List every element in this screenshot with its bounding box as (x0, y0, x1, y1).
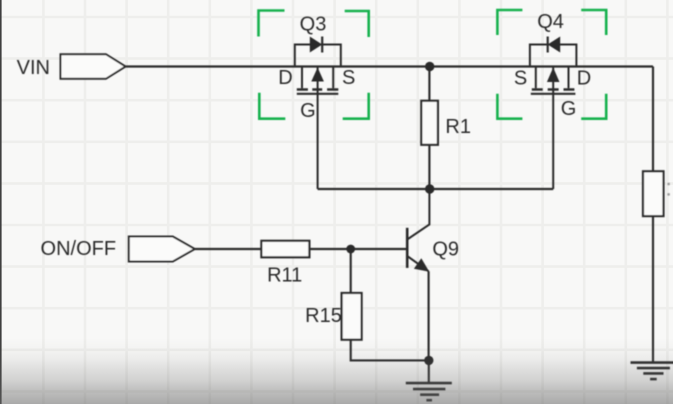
left video edge (0, 0, 2, 404)
body diode of Q4 (548, 37, 561, 53)
svg-text:Q3: Q3 (300, 13, 327, 35)
transistor Q3 (P-MOSFET with body diode) (295, 13, 341, 189)
resistor R1 (421, 101, 471, 145)
wire Q3 gate lead (317, 67, 319, 190)
source and drain stubs of Q4 (536, 67, 569, 89)
svg-text:ON/OFF: ON/OFF (41, 238, 117, 260)
wire R15 top (350, 249, 352, 293)
wire Q4 gate lead (552, 67, 554, 190)
wire Q9 emitter to ground (428, 271, 430, 360)
transistor Q4 (P-MOSFET with body diode, mirrored) (530, 11, 577, 189)
emitter arrow of Q9 (414, 258, 429, 272)
ground (right) (631, 363, 673, 380)
svg-text:D: D (278, 67, 292, 89)
ground (middle) (406, 383, 452, 400)
wire R1 bottom (428, 145, 430, 189)
selection brackets around Q4 (497, 10, 606, 119)
base bar of Q9 (406, 228, 409, 268)
gate plate of Q4 (531, 93, 576, 95)
junction node R11/R15/Q9 base (346, 245, 355, 254)
bottom vignette fade (0, 338, 673, 404)
junction node emitter/R15/ground (424, 356, 433, 365)
port ON/OFF (41, 237, 195, 262)
body diode loop of Q4 (530, 45, 577, 67)
body diode of Q3 (310, 37, 322, 53)
body arrow of Q3 (311, 68, 324, 82)
transistor Q9 (NPN) (407, 189, 459, 272)
svg-text:R1: R1 (445, 116, 471, 138)
wire middle ground stub (428, 360, 430, 383)
body arrow of Q4 (547, 68, 560, 83)
svg-text:D: D (577, 68, 591, 90)
svg-text:S: S (514, 68, 527, 90)
svg-text:S: S (342, 67, 355, 89)
svg-text:R11: R11 (267, 265, 302, 287)
wire gate rail (318, 188, 554, 190)
selection brackets around Q3 (259, 11, 369, 119)
svg-text:VIN: VIN (17, 57, 50, 79)
wire VIN rail (126, 65, 653, 67)
body diode loop of Q3 (295, 45, 341, 67)
channel dashes of Q3 (297, 88, 339, 90)
emitter lead of Q9 (407, 256, 428, 271)
svg-text:R15: R15 (305, 305, 342, 327)
gate plate of Q3 (297, 93, 339, 95)
svg-text:G: G (561, 98, 577, 120)
wire R11 to Q9 base (309, 248, 407, 250)
port VIN (17, 54, 126, 79)
drain and source stubs of Q3 (302, 67, 333, 89)
svg-text:Q9: Q9 (432, 239, 459, 261)
wire ON/OFF to R11 (195, 248, 262, 250)
resistor R15 (305, 293, 361, 340)
junction node VIN/R1 (425, 62, 434, 71)
wire right vertical drop (652, 67, 654, 363)
svg-text:Q4: Q4 (537, 11, 564, 33)
collector lead of Q9 (407, 189, 429, 240)
channel dashes of Q4 (532, 88, 575, 90)
svg-text:G: G (300, 100, 316, 122)
junction node gate rail/R1/Q9 collector (425, 184, 434, 193)
resistor R11 (261, 241, 309, 287)
wire R1 top (428, 67, 430, 101)
wire R15 bottom (351, 340, 429, 361)
resistor R2 (right edge, partially clipped) (643, 171, 670, 216)
